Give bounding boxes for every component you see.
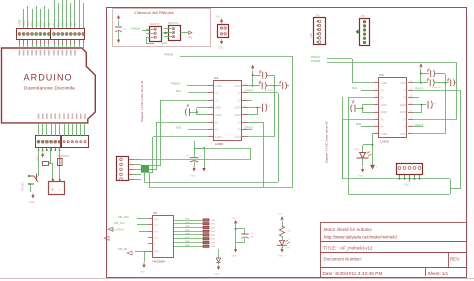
svg-text:GND2: GND2	[215, 115, 222, 117]
svg-text:+5V: +5V	[216, 16, 221, 19]
svg-text:3TRACK: 3TRACK	[414, 87, 424, 90]
svg-text:2 Servos on 'dial' PWM pins: 2 Servos on 'dial' PWM pins	[134, 11, 174, 15]
svg-text:7: 7	[376, 125, 377, 127]
wire IC1 pin3 to motor terminal	[160, 100, 208, 102]
ground IC3	[144, 251, 148, 253]
stubs from Arduino into bottom headers	[38, 123, 40, 136]
svg-text:LED: LED	[286, 248, 291, 250]
svg-text:M2A: M2A	[176, 90, 181, 93]
svg-text:4: 4	[211, 106, 212, 108]
svg-text:RCK: RCK	[154, 231, 159, 233]
capacitor C9	[236, 228, 245, 230]
svg-text:M2B: M2B	[211, 231, 216, 233]
svg-text:M3A: M3A	[352, 87, 357, 90]
stub IC1 2Y	[248, 100, 252, 102]
svg-text:REV:: REV:	[450, 256, 460, 261]
+5V arrow at IC1 VCC1	[251, 65, 254, 68]
wire IC2 pin8 down	[372, 133, 374, 135]
ground below reset	[30, 184, 32, 192]
wire IC2 caps down to VCC2 pin	[445, 74, 447, 134]
wire IC1 pin6 to motor terminal	[156, 122, 208, 124]
svg-text:3-4EN: 3-4EN	[381, 134, 388, 136]
svg-text:9: 9	[244, 135, 245, 137]
svg-text:7: 7	[211, 128, 212, 130]
schematic frame	[107, 8, 467, 278]
svg-text:D2: D2	[73, 22, 77, 26]
svg-text:M4A: M4A	[185, 240, 190, 243]
svg-text:1-2EN: 1-2EN	[381, 83, 388, 85]
wire to fuse	[50, 148, 52, 163]
svg-text:Duemilanove Diecimila: Duemilanove Diecimila	[24, 85, 75, 90]
svg-text:12: 12	[410, 110, 412, 112]
svg-text:Stepper 1.2 DC motor driver #1: Stepper 1.2 DC motor driver #1	[140, 80, 144, 122]
svg-text:GND: GND	[29, 201, 35, 204]
svg-text:IC2: IC2	[380, 73, 385, 77]
svg-text:4A: 4A	[381, 126, 384, 129]
motor terminal bundle junctions	[141, 165, 149, 173]
svg-text:TITLE:: TITLE:	[324, 245, 337, 250]
wire VCC caps down to IC1 VCC2 pin	[274, 75, 276, 137]
svg-text:13: 13	[244, 106, 246, 108]
wire IC2 pin3 to loop	[348, 97, 374, 99]
svg-text:1.0K: 1.0K	[287, 231, 292, 233]
svg-text:JP2: JP2	[361, 15, 366, 18]
svg-text:GND1: GND1	[215, 108, 222, 110]
wire IC1 pin8 to motor terminal	[153, 136, 208, 138]
ground servo cap	[118, 38, 120, 40]
svg-text:GND: GND	[140, 272, 145, 274]
svg-text:3Y: 3Y	[403, 119, 406, 121]
svg-text:GND: GND	[359, 176, 364, 178]
svg-text:SER: SER	[154, 219, 159, 221]
svg-text:14: 14	[244, 99, 246, 101]
wire X2 pin1 up right	[141, 159, 250, 161]
svg-text:4Y: 4Y	[403, 127, 406, 129]
svg-text:10uF/16V: 10uF/16V	[432, 87, 442, 89]
header JP5 (power)	[36, 136, 61, 148]
svg-text:PWM2B: PWM2B	[164, 53, 174, 56]
svg-text:LED1: LED1	[354, 149, 360, 151]
svg-text:GND: GND	[162, 42, 168, 45]
svg-text:13: 13	[410, 103, 412, 105]
long wire lower loop A	[144, 173, 146, 182]
svg-text:VCC2: VCC2	[400, 134, 407, 136]
svg-text:D5: D5	[61, 22, 65, 26]
wire junction to pin-2 ground	[203, 147, 205, 149]
capacitor C2b	[421, 82, 428, 84]
svg-text:SERVO1: SERVO1	[150, 23, 161, 26]
svg-text:2: 2	[211, 91, 212, 93]
capacitor C1	[253, 75, 261, 77]
svg-text:5: 5	[376, 110, 377, 112]
loop wires under X3	[343, 178, 450, 180]
svg-text:GND: GND	[154, 251, 159, 253]
+5V arrow servo	[117, 15, 120, 18]
+5V arrow at IC2 VCC	[419, 63, 422, 66]
ground IC2 pin8	[370, 165, 375, 170]
svg-text:GND: GND	[218, 47, 224, 50]
svg-text:9: 9	[410, 132, 411, 134]
svg-text:DIR_SER: DIR_SER	[118, 216, 129, 219]
svg-text:AF_mshield-v12: AF_mshield-v12	[340, 245, 373, 250]
svg-text:GND4: GND4	[234, 115, 241, 117]
svg-text:2Y: 2Y	[238, 100, 241, 102]
svg-text:IC1: IC1	[214, 76, 219, 80]
ground JP3	[221, 39, 223, 41]
svg-text:3A: 3A	[381, 118, 384, 121]
svg-text:D13: D13	[26, 21, 30, 26]
svg-text:12: 12	[244, 113, 246, 115]
svg-text:D11: D11	[34, 21, 38, 26]
svg-text:11: 11	[410, 118, 412, 120]
svg-text:Date: 8/30/2011 3:43:49 PM: Date: 8/30/2011 3:43:49 PM	[323, 271, 383, 276]
long wire lower loop B	[149, 173, 151, 187]
LED2	[277, 241, 287, 246]
svg-text:D12: D12	[30, 21, 34, 26]
svg-text:GND: GND	[404, 185, 409, 187]
svg-text:11: 11	[244, 121, 246, 123]
svg-text:PWM1B: PWM1B	[131, 27, 141, 30]
svg-text:DIR_EN: DIR_EN	[118, 248, 127, 251]
capacitor C11	[115, 26, 122, 28]
ground under C7	[193, 166, 195, 168]
LED1	[357, 153, 369, 159]
svg-text:DIR_LATCH: DIR_LATCH	[110, 228, 124, 231]
svg-text:10: 10	[410, 125, 412, 127]
+5V supply arrow	[42, 148, 44, 152]
diode D1 under resistor network	[218, 249, 220, 258]
svg-text:2: 2	[376, 89, 377, 91]
svg-text:1A: 1A	[215, 92, 218, 95]
svg-text:D3: D3	[69, 22, 73, 26]
header JP6 (analog in)	[62, 136, 89, 148]
svg-text:4: 4	[376, 103, 377, 105]
svg-text:2A: 2A	[381, 97, 384, 100]
svg-text:PWM2A: PWM2A	[171, 83, 181, 86]
header JP8 (digital pins 0-7)	[51, 29, 85, 40]
svg-text:GND: GND	[22, 20, 26, 26]
capacitor C7 electrolytic	[194, 141, 196, 157]
svg-text:D6: D6	[56, 22, 60, 26]
svg-text:M2A: M2A	[211, 226, 216, 229]
IC2 pin stubs	[374, 82, 379, 84]
svg-text:GND: GND	[232, 256, 237, 258]
op-amp IC1 L293D body	[214, 81, 242, 141]
wire servo gnd	[146, 37, 148, 44]
svg-text:15: 15	[410, 89, 412, 91]
svg-text:1Y: 1Y	[238, 93, 241, 95]
svg-text:3A: 3A	[215, 121, 218, 124]
svg-text:VCC: VCC	[278, 214, 283, 216]
svg-text:M4B: M4B	[211, 246, 216, 248]
ground LED1	[362, 167, 364, 169]
svg-text:M1B: M1B	[211, 224, 216, 226]
svg-text:M2B: M2B	[185, 230, 190, 232]
resistor R1	[43, 162, 49, 166]
svg-text:GND3: GND3	[234, 108, 241, 110]
resistor array outputs of IC3	[174, 220, 203, 222]
shift register IC3 74HC595N body	[153, 216, 174, 258]
svg-text:3-4EN: 3-4EN	[215, 137, 222, 139]
wire servo2 to +HV	[180, 32, 188, 34]
capacitor C3	[274, 85, 281, 87]
svg-text:8: 8	[211, 135, 212, 137]
loop wire right of IC1	[292, 56, 294, 187]
svg-text:VCC2: VCC2	[235, 137, 242, 139]
svg-text:PWR: PWR	[311, 32, 313, 38]
svg-text:1: 1	[211, 84, 212, 86]
svg-text:PWM0A: PWM0A	[311, 56, 321, 59]
svg-text:RESET: RESET	[21, 181, 25, 191]
wire between servo headers	[162, 32, 168, 35]
svg-text:M1A: M1A	[211, 219, 216, 222]
svg-text:1: 1	[376, 81, 377, 83]
Arduino top pin-name labels	[19, 50, 21, 56]
header JP7 (digital pins 8-13)	[17, 29, 51, 40]
svg-text:GND1: GND1	[381, 105, 388, 107]
resistor R2 zigzag	[279, 226, 284, 236]
wire IC2 pin6 to loop	[343, 119, 374, 121]
svg-text:AREF: AREF	[18, 18, 22, 26]
capacitor C5 on IC1 GND pins	[190, 112, 197, 114]
svg-text:L293D: L293D	[215, 142, 223, 146]
svg-text:3: 3	[211, 99, 212, 101]
svg-text:16: 16	[410, 81, 412, 83]
svg-text:6: 6	[376, 118, 377, 120]
svg-text:THERMAL: THERMAL	[57, 154, 70, 158]
svg-text:VCC: VCC	[37, 156, 39, 161]
svg-text:M3B: M3B	[211, 239, 216, 241]
svg-text:3: 3	[376, 96, 377, 98]
capacitor C2	[253, 85, 260, 87]
wire from +5V	[220, 19, 223, 22]
svg-text:+HV: +HV	[188, 37, 193, 40]
connector JP3	[218, 25, 229, 38]
svg-text:16: 16	[244, 84, 246, 86]
ground LED2	[281, 247, 283, 249]
svg-text:D8: D8	[47, 22, 51, 26]
svg-text:1uF: 1uF	[250, 237, 254, 239]
svg-text:SCK: SCK	[154, 225, 159, 227]
svg-text:1A: 1A	[381, 89, 384, 92]
capacitor C5b on IC2 GND pins	[356, 108, 362, 110]
svg-text:1Y: 1Y	[403, 90, 406, 92]
svg-text:GND: GND	[190, 176, 195, 178]
svg-text:G: G	[154, 244, 156, 246]
svg-text:M3A: M3A	[185, 233, 190, 236]
svg-text:SERVO2: SERVO2	[168, 22, 179, 25]
svg-text:IC3: IC3	[153, 211, 158, 215]
svg-text:Motor shield for Arduino: Motor shield for Arduino	[324, 227, 372, 232]
svg-text:2A: 2A	[215, 99, 218, 102]
servo section outline	[113, 9, 211, 47]
svg-text:M4A: M4A	[211, 241, 216, 244]
svg-text:PWM0B: PWM0B	[311, 60, 321, 63]
svg-text:http://www.ladyada.net/make/ms: http://www.ladyada.net/make/mshield	[324, 234, 397, 239]
svg-text:M1A: M1A	[185, 218, 190, 221]
svg-text:D4: D4	[65, 22, 69, 26]
svg-text:DIR_CLK: DIR_CLK	[114, 222, 125, 225]
capacitor C4b on IC2 right GND pins	[413, 104, 422, 106]
svg-text:2Y: 2Y	[403, 98, 406, 100]
sheet edge line	[0, 278, 474, 280]
stub IC2 2Y	[413, 97, 419, 99]
capacitor C4 on IC1 right GND pins	[248, 107, 257, 109]
capacitor C1b	[421, 73, 429, 75]
svg-text:M1B: M1B	[185, 222, 190, 224]
nested wires bundle to IC1	[149, 165, 160, 167]
svg-text:VCC1: VCC1	[400, 83, 407, 85]
svg-text:D10: D10	[39, 21, 43, 26]
svg-text:4A: 4A	[215, 129, 218, 132]
svg-text:1-2EN: 1-2EN	[215, 86, 222, 88]
IC1 pin stubs	[208, 85, 214, 87]
svg-text:VCC1: VCC1	[235, 86, 242, 88]
svg-text:8: 8	[376, 132, 377, 134]
svg-text:10uF/16V: 10uF/16V	[264, 90, 274, 92]
svg-text:M3B: M3B	[185, 237, 190, 239]
Arduino module body U$1	[2, 48, 96, 123]
wire IC1 3Y down	[248, 122, 263, 124]
title block row dividers	[320, 241, 467, 243]
wire IC2 3Y from PWM0B	[413, 119, 457, 121]
title block outline	[321, 223, 467, 278]
svg-text:5: 5	[211, 113, 212, 115]
svg-text:Document Number:: Document Number:	[324, 256, 363, 261]
svg-text:6: 6	[211, 121, 212, 123]
ground C9	[235, 247, 237, 249]
motor terminal X2 (M1/M2)	[117, 157, 129, 181]
svg-text:Sheet: 1/1: Sheet: 1/1	[428, 271, 449, 276]
svg-text:GND: GND	[215, 274, 220, 276]
wire to reset switch	[38, 148, 40, 176]
stubs below bottom headers	[38, 148, 40, 151]
svg-text:D7: D7	[52, 22, 56, 26]
svg-text:M2B: M2B	[176, 126, 181, 129]
svg-text:GND: GND	[278, 256, 283, 258]
svg-text:Stepper 3.4 DC motor driver #2: Stepper 3.4 DC motor driver #2	[325, 121, 329, 163]
svg-text:74HC595N: 74HC595N	[152, 260, 165, 264]
motor terminal X3 (M3/M4)	[397, 164, 423, 175]
wires from digital header to nets above	[23, 9, 25, 28]
svg-text:GND4: GND4	[400, 112, 407, 114]
svg-text:M3A: M3A	[211, 234, 216, 237]
junction to LED1	[372, 144, 374, 146]
svg-text:VCC: VCC	[232, 218, 237, 220]
svg-text:14: 14	[410, 96, 412, 98]
svg-text:M3B: M3B	[356, 123, 361, 126]
header pin stubs into Arduino	[19, 40, 21, 44]
svg-text:L293D: L293D	[381, 139, 389, 143]
svg-text:GND3: GND3	[400, 105, 407, 107]
svg-text:GND2: GND2	[381, 112, 388, 114]
svg-text:ARDUINO: ARDUINO	[24, 73, 73, 83]
Arduino bottom pin-name labels	[38, 114, 40, 119]
op-amp IC2 L293D body	[379, 78, 407, 138]
svg-text:3Y: 3Y	[238, 122, 241, 124]
external power terminal X-EXT	[49, 182, 65, 195]
capacitor C3b	[445, 82, 449, 84]
svg-text:4Y: 4Y	[238, 130, 241, 132]
svg-text:M4B: M4B	[185, 245, 190, 247]
svg-text:M2A: M2A	[185, 225, 190, 228]
svg-text:D9: D9	[43, 22, 47, 26]
